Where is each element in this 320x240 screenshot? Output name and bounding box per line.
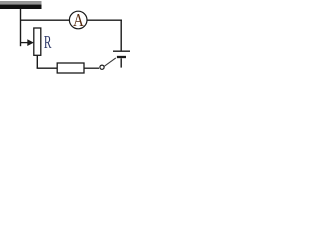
wire: right vertical down to battery [120,20,122,52]
svg-text:A: A [73,10,84,31]
arrow shaft into R [20,42,29,44]
wire: top horizontal to ammeter [20,19,69,21]
resistor R2 body [57,63,84,73]
switch pivot circle [100,65,104,69]
ammeter U1 [69,11,87,29]
wire: battery to switch fixed contact [120,58,122,67]
switch lever [104,58,115,66]
arrow head into R [27,39,34,46]
battery short plate (-) [117,56,126,58]
wire: resistor to switch [84,67,99,69]
support bar hatching [0,1,42,4]
wire: bottom left horizontal [37,67,58,69]
photoresistor R body [34,28,41,55]
battery long plate (+) [113,50,130,52]
wire: vertical from support bar [20,9,22,46]
wire: R bottom down [36,55,38,68]
support bar [0,4,42,9]
svg-text:R: R [44,34,52,53]
wire: ammeter to right corner [87,19,122,21]
